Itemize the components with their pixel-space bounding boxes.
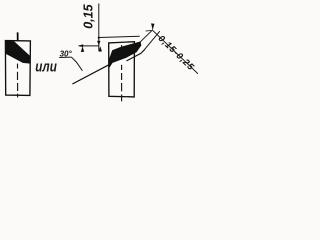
left blade black band (chamfer face) [5,41,30,64]
svg-text:0,15: 0,15 [81,3,95,28]
line A raised tip line [99,36,140,37]
left axis tick above top edge [17,32,19,40]
faint stub into junction [146,29,153,32]
small down arrow upper [98,37,101,40]
arrow at junction [151,23,154,30]
angle arc up-arrow [81,46,84,52]
technical drawing: screwdriver blade tip, two variants [0,0,198,106]
extension line 2 from band lower tip [145,31,160,49]
down arrow at line B [97,41,100,46]
long 30-degree chamfer line [72,63,112,84]
0,15 vertical dimension shaft [98,4,100,51]
inclined shelf dimension line [153,30,198,74]
horizontal line B (top edge extension) with left arrow [79,45,100,47]
left blade rectangle outline [5,41,30,96]
leader from 30 shelf [72,57,83,70]
left axis dashed line [17,64,19,98]
band lower contour line [127,49,145,61]
extension line 1 from band tip [140,30,152,42]
right blade black band [109,41,142,68]
svg-text:или: или [35,58,57,75]
right blade rectangle outline [109,42,135,97]
up arrow below line B [99,46,102,52]
right axis dashed line [121,45,123,101]
